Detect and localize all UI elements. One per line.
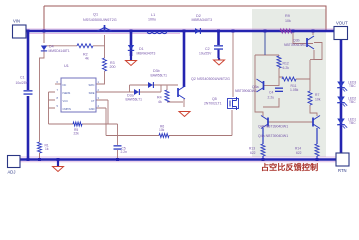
- svg-text:TBC: TBC: [349, 100, 356, 104]
- svg-text:200: 200: [110, 65, 116, 69]
- svg-text:100u: 100u: [148, 18, 156, 22]
- svg-text:Q5: Q5: [212, 97, 217, 101]
- svg-text:22k: 22k: [74, 132, 80, 136]
- svg-text:10u/25V: 10u/25V: [199, 51, 212, 55]
- svg-text:NBT3906DW1: NBT3906DW1: [284, 43, 306, 47]
- svg-text:10k: 10k: [315, 97, 321, 101]
- svg-text:Q1: Q1: [93, 13, 98, 17]
- svg-text:2N7002LT1: 2N7002LT1: [204, 102, 222, 106]
- svg-text:GND: GND: [89, 107, 95, 111]
- svg-text:10k: 10k: [285, 19, 291, 23]
- svg-text:MBRA340T3: MBRA340T3: [137, 51, 156, 55]
- svg-text:10u/25V: 10u/25V: [16, 81, 29, 85]
- svg-text:6.2k: 6.2k: [283, 66, 290, 70]
- svg-text:NBT3906DW1: NBT3906DW1: [235, 89, 257, 93]
- svg-text:1.05k: 1.05k: [290, 88, 299, 92]
- svg-text:1k: 1k: [45, 147, 49, 151]
- svg-text:ISENS: ISENS: [63, 91, 71, 95]
- svg-text:CMPIN: CMPIN: [63, 107, 71, 111]
- svg-text:SWE: SWE: [89, 91, 95, 95]
- svg-text:4k: 4k: [158, 100, 162, 104]
- svg-text:U1: U1: [64, 64, 69, 68]
- svg-text:NSS40500UW6T2G: NSS40500UW6T2G: [83, 18, 117, 22]
- svg-text:622: 622: [296, 151, 302, 155]
- svg-text:TBC: TBC: [349, 121, 356, 125]
- svg-text:R12: R12: [283, 62, 289, 66]
- svg-text:Q4b NBT3904DW1: Q4b NBT3904DW1: [258, 125, 288, 129]
- svg-text:2.2u: 2.2u: [268, 95, 275, 99]
- svg-text:RTN: RTN: [338, 168, 347, 173]
- svg-text:占空比反馈控制: 占空比反馈控制: [261, 162, 318, 172]
- svg-text:ADJ: ADJ: [8, 170, 16, 175]
- svg-text:Q2 NSS40500UW6T2G: Q2 NSS40500UW6T2G: [191, 77, 230, 81]
- svg-text:CT: CT: [91, 99, 95, 103]
- svg-text:D3b: D3b: [153, 69, 160, 73]
- svg-text:2.2n: 2.2n: [121, 150, 128, 154]
- svg-text:MBRA340T3: MBRA340T3: [192, 18, 213, 22]
- svg-text:C4: C4: [269, 91, 273, 95]
- svg-text:R9: R9: [285, 14, 290, 18]
- svg-text:VCC: VCC: [63, 99, 69, 103]
- svg-text:C1: C1: [20, 76, 25, 80]
- svg-text:Q4a NBT3904DW1: Q4a NBT3904DW1: [258, 134, 288, 138]
- svg-text:BAW56LT1: BAW56LT1: [151, 74, 168, 78]
- svg-text:VOUT: VOUT: [336, 21, 348, 26]
- svg-text:L1: L1: [151, 13, 155, 17]
- svg-text:C2: C2: [205, 47, 210, 51]
- svg-text:BAW56LT1: BAW56LT1: [126, 97, 143, 101]
- svg-text:622: 622: [250, 151, 256, 155]
- svg-text:4k: 4k: [85, 57, 89, 61]
- svg-text:MMSD4148T1: MMSD4148T1: [49, 49, 70, 53]
- svg-text:VIN: VIN: [13, 19, 20, 24]
- svg-text:SWC: SWC: [88, 83, 94, 87]
- svg-text:10k: 10k: [159, 128, 165, 132]
- svg-text:NC: NC: [63, 83, 67, 87]
- svg-text:TBC: TBC: [349, 84, 356, 88]
